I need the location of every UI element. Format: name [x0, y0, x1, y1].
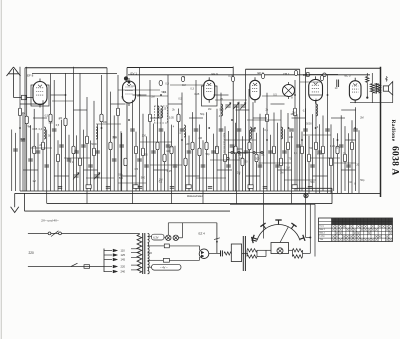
- svg-text:2M: 2M: [360, 117, 363, 120]
- svg-text:2M: 2M: [22, 112, 25, 115]
- svg-text:EF 9: EF 9: [212, 72, 219, 76]
- svg-text:500: 500: [219, 108, 224, 111]
- wire bus 3: [47, 203, 332, 205]
- transformer T2 output: [370, 73, 380, 103]
- wire group section B verticals: [111, 67, 207, 204]
- svg-text:6038 A: 6038 A: [390, 146, 400, 176]
- svg-text:2M: 2M: [186, 143, 189, 146]
- small parts on top rails: [159, 70, 324, 85]
- svg-text:0,25: 0,25: [21, 138, 26, 141]
- svg-text:500: 500: [141, 177, 146, 180]
- svg-text:2M: 2M: [292, 112, 295, 115]
- components above bus: [58, 185, 312, 189]
- svg-text:2M: 2M: [199, 137, 202, 140]
- svg-text:0,5: 0,5: [303, 110, 307, 113]
- tube V2 ECH4: [123, 71, 138, 106]
- svg-text:0,1: 0,1: [131, 85, 135, 88]
- svg-text:2M: 2M: [151, 96, 154, 99]
- svg-text:0,05: 0,05: [169, 117, 174, 120]
- svg-text:6,3V: 6,3V: [153, 236, 159, 240]
- svg-text:0,1: 0,1: [163, 91, 167, 94]
- wire group section A verticals: [12, 67, 102, 204]
- tube V5 AB1 (top view): [283, 72, 295, 99]
- svg-text:0,5: 0,5: [56, 124, 60, 127]
- label wellenschalter: [187, 195, 203, 198]
- svg-text:Mitt.1: Mitt.1: [320, 228, 326, 231]
- labels component values: [21, 75, 365, 186]
- svg-text:0,1: 0,1: [294, 152, 298, 155]
- label heater note: [41, 218, 59, 222]
- wire group section C verticals: [214, 80, 298, 204]
- svg-text:Lang: Lang: [320, 236, 326, 238]
- wire heater taps: [148, 236, 153, 267]
- svg-text:0,3: 0,3: [39, 128, 43, 131]
- coil L field: [366, 73, 369, 99]
- lamp LP1: [164, 235, 171, 240]
- fuse F2: [152, 244, 200, 248]
- wire bus 4: [25, 193, 231, 211]
- svg-text:220: 220: [29, 251, 35, 255]
- wire speaker return: [350, 95, 393, 103]
- svg-text:1M: 1M: [32, 180, 35, 183]
- svg-text:1M: 1M: [182, 84, 185, 87]
- svg-text:EF 8: EF 8: [27, 73, 34, 77]
- svg-text:0,3: 0,3: [239, 157, 243, 160]
- resistors (plate/grid loads): [18, 108, 353, 166]
- svg-text:125: 125: [121, 253, 126, 257]
- wire right feed drops: [305, 193, 315, 256]
- svg-text:0,3: 0,3: [190, 88, 194, 91]
- resistor pair right (governor): [289, 249, 311, 259]
- wire mains L1: [28, 232, 139, 234]
- svg-text:50p: 50p: [113, 136, 118, 139]
- svg-text:Band 2x Lack was neu: Band 2x Lack was neu: [223, 133, 225, 153]
- AVC line and parts above V6: [305, 73, 338, 87]
- svg-text:5000: 5000: [240, 152, 246, 155]
- svg-text:~ 4V ~: ~ 4V ~: [160, 266, 168, 270]
- trimmer capacitors: [73, 103, 246, 180]
- box section C top: [246, 69, 300, 191]
- wire rectifier output: [209, 223, 220, 254]
- resistor R filter: [224, 252, 232, 255]
- speaker LS: [383, 76, 392, 95]
- svg-text:50p: 50p: [200, 113, 205, 116]
- svg-text:Wellenschalter: Wellenschalter: [187, 195, 203, 198]
- governor contact arc: [252, 220, 305, 243]
- box section A top: [25, 68, 107, 191]
- wire bus 2: [15, 192, 381, 194]
- wire top rail 3: [32, 74, 370, 81]
- tube V1 EF8: [27, 73, 49, 107]
- svg-text:500: 500: [310, 181, 315, 184]
- table band switch: [319, 218, 393, 242]
- svg-text:0,25: 0,25: [228, 75, 233, 78]
- wire mid horizontals: [30, 82, 356, 183]
- motor M1: [257, 243, 289, 257]
- svg-text:0,25: 0,25: [330, 145, 335, 148]
- svg-text:300: 300: [144, 154, 149, 157]
- svg-text:100: 100: [103, 121, 108, 124]
- svg-text:2M: 2M: [237, 171, 240, 174]
- switch S1a: [48, 231, 61, 237]
- svg-text:5000: 5000: [91, 143, 97, 146]
- svg-text:Mitt.2: Mitt.2: [320, 231, 326, 234]
- transformer T1 power: [137, 233, 149, 274]
- svg-text:50p: 50p: [206, 153, 211, 156]
- svg-text:100: 100: [166, 150, 171, 153]
- label 4V winding: [152, 264, 182, 270]
- capacitors (coupling/bypass): [13, 129, 358, 167]
- svg-text:T.A.: T.A.: [320, 238, 324, 241]
- svg-text:CB 1: CB 1: [283, 72, 290, 76]
- tube V3 EF9: [202, 72, 219, 106]
- lamp LP2: [173, 235, 178, 240]
- svg-text:0,25: 0,25: [194, 93, 199, 96]
- ground: [11, 193, 19, 212]
- svg-text:0,5: 0,5: [45, 114, 49, 117]
- svg-text:5000: 5000: [306, 123, 312, 126]
- tube V6 EBL1: [303, 73, 323, 103]
- svg-text:220: 220: [121, 265, 126, 269]
- svg-text:0,25: 0,25: [167, 170, 172, 173]
- svg-text:1M: 1M: [280, 172, 283, 175]
- svg-text:0,5: 0,5: [273, 94, 277, 97]
- svg-text:145: 145: [121, 258, 126, 262]
- svg-text:EV 1: EV 1: [131, 71, 138, 75]
- lamp on bus: [304, 193, 308, 197]
- voltage selector: [104, 249, 139, 274]
- svg-text:50p: 50p: [119, 173, 124, 176]
- svg-text:0,05: 0,05: [317, 153, 322, 156]
- svg-text:500: 500: [119, 177, 124, 180]
- wire dial lamp feed: [168, 223, 217, 238]
- svg-text:EBL1: EBL1: [303, 73, 311, 77]
- svg-text:1M: 1M: [286, 167, 289, 170]
- svg-text:2M: 2M: [159, 179, 162, 182]
- box section B top: [127, 67, 233, 192]
- svg-text:1M: 1M: [208, 108, 211, 111]
- tube V4 EF9: [250, 71, 264, 103]
- scan edge: [0, 0, 2, 339]
- svg-text:0,1: 0,1: [265, 129, 269, 132]
- svg-text:2V~ und 4V~: 2V~ und 4V~: [41, 218, 59, 222]
- svg-text:110: 110: [121, 249, 126, 253]
- wire bus 1: [20, 190, 332, 192]
- svg-text:0,05: 0,05: [32, 128, 37, 131]
- wire group section D verticals: [302, 75, 359, 193]
- rectifier V8 EZ4: [199, 232, 209, 261]
- svg-text:100: 100: [289, 136, 294, 139]
- rotated note near wave switch: [223, 133, 225, 153]
- label 220: [29, 251, 35, 255]
- svg-text:EZ 4: EZ 4: [199, 232, 206, 236]
- svg-text:500: 500: [49, 122, 54, 125]
- wire mains L2: [28, 266, 104, 268]
- svg-text:0,3: 0,3: [165, 82, 169, 85]
- switch S1b: [71, 263, 78, 266]
- svg-text:0,1: 0,1: [70, 161, 74, 164]
- svg-text:50p: 50p: [360, 179, 365, 182]
- horizontal link wires: [20, 95, 356, 176]
- svg-text:100: 100: [142, 135, 147, 138]
- wire governor feed: [263, 204, 265, 239]
- svg-text:0,1: 0,1: [170, 146, 174, 149]
- dashed IF can outline: [155, 106, 168, 123]
- svg-text:Kurz: Kurz: [320, 225, 325, 228]
- label Radione 6038 A: [390, 120, 400, 176]
- label 6.3V winding: [152, 234, 165, 240]
- svg-text:EL 5: EL 5: [345, 74, 351, 78]
- svg-text:Radione: Radione: [390, 120, 396, 142]
- capacitor C filter: [217, 250, 223, 256]
- box section D top: [305, 68, 380, 191]
- wire bus right segment: [230, 188, 332, 204]
- junction dots: [19, 94, 356, 141]
- resistor pair left (governor): [247, 249, 257, 259]
- coils (IF / osc windings): [44, 104, 318, 139]
- switch contacts wave switch: [227, 151, 263, 159]
- svg-text:0,5: 0,5: [135, 168, 139, 171]
- wire right B+ rail (heavy): [380, 67, 382, 197]
- svg-text:0,5: 0,5: [178, 98, 182, 101]
- fuse F3: [152, 258, 200, 262]
- svg-text:500: 500: [255, 158, 260, 161]
- choke block: [231, 236, 248, 271]
- svg-text:0,05: 0,05: [237, 148, 242, 151]
- tube V7 EL5: [345, 74, 362, 104]
- antenna: [7, 67, 34, 100]
- svg-text:240: 240: [121, 270, 126, 274]
- fuse F1: [84, 265, 90, 269]
